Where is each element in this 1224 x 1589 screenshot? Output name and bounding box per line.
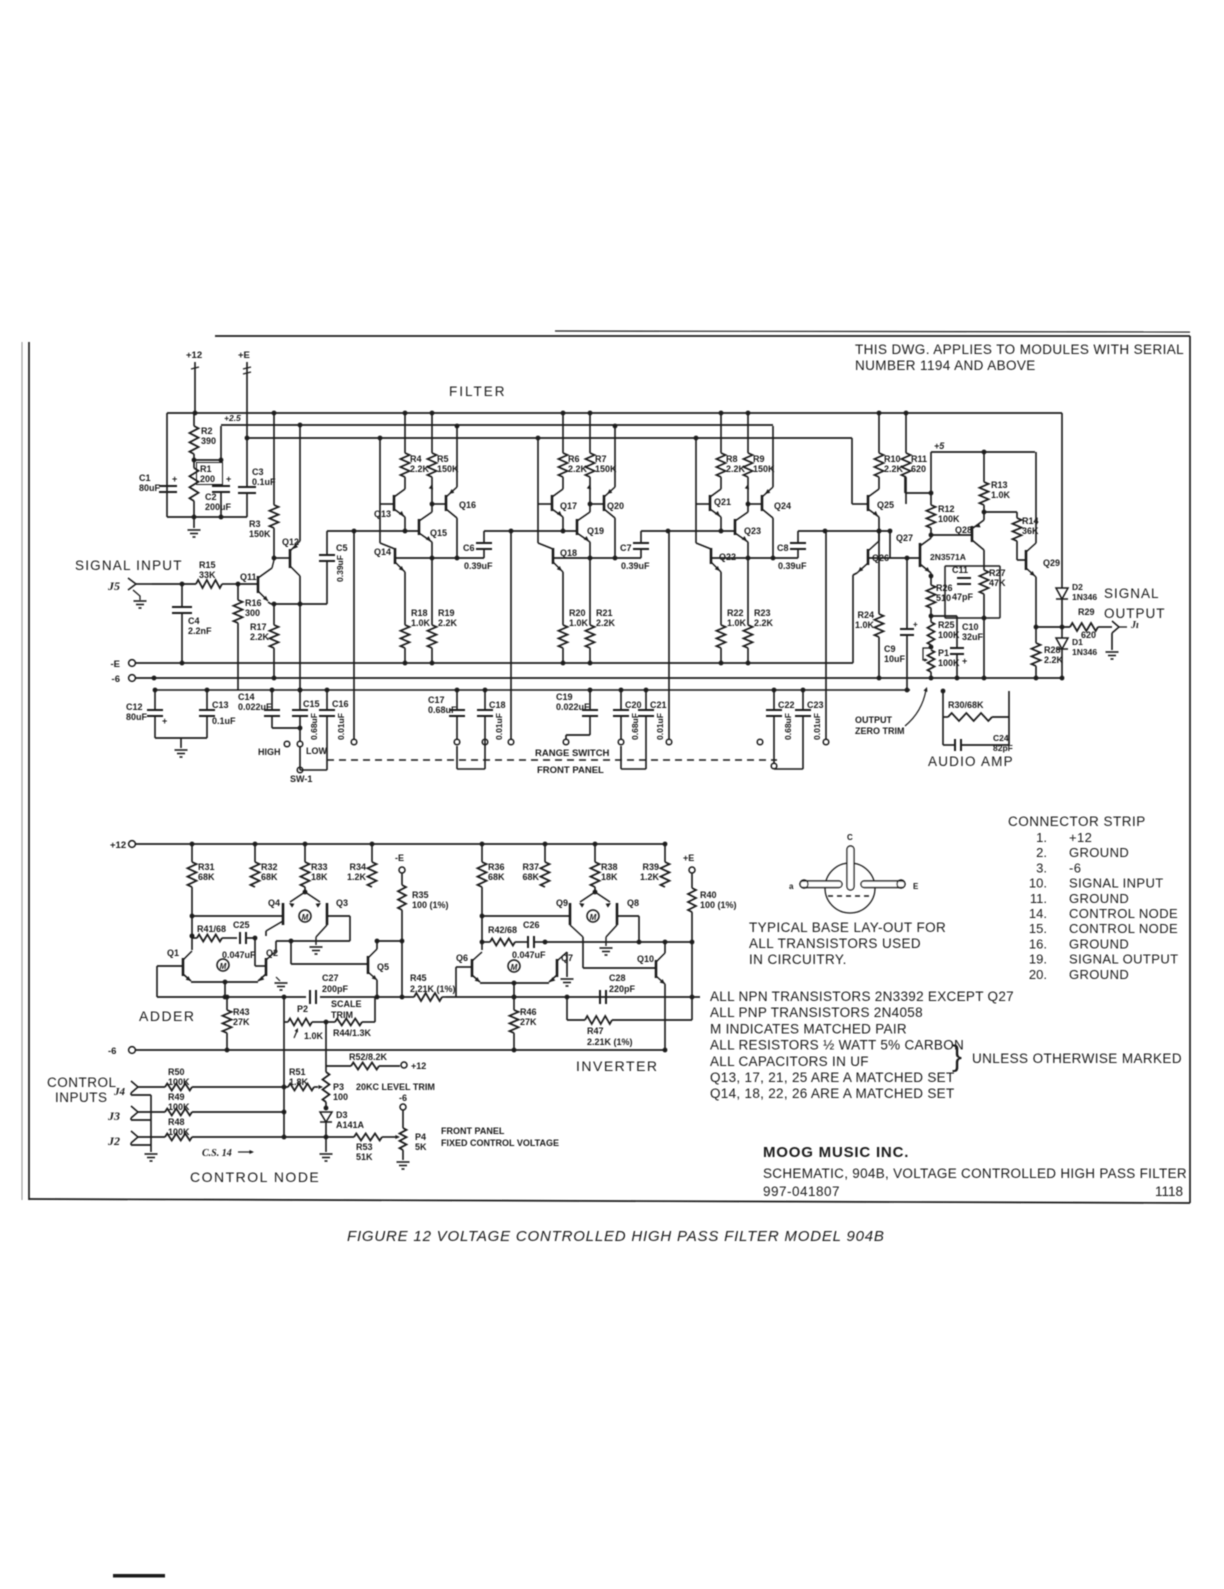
svg-text:-E: -E bbox=[111, 659, 121, 670]
capacitor C27 bbox=[309, 990, 311, 1004]
wire Q14 base row / emitter row y558 bbox=[395, 557, 484, 559]
svg-text:Q10: Q10 bbox=[637, 954, 654, 964]
svg-text:Q22: Q22 bbox=[719, 552, 736, 562]
svg-text:R39: R39 bbox=[642, 862, 659, 872]
svg-text:Q14: Q14 bbox=[374, 547, 391, 557]
resistor R34 bbox=[370, 842, 375, 847]
svg-text:68K: 68K bbox=[522, 872, 539, 882]
svg-text:C27: C27 bbox=[322, 973, 339, 983]
svg-text:R3: R3 bbox=[249, 519, 261, 529]
resistor R14 bbox=[982, 510, 987, 515]
capacitor C13 bbox=[205, 688, 210, 693]
svg-text:M INDICATES MATCHED PAIR: M INDICATES MATCHED PAIR bbox=[710, 1021, 907, 1036]
svg-text:ALL CAPACITORS IN UF: ALL CAPACITORS IN UF bbox=[710, 1054, 869, 1069]
svg-text:C12: C12 bbox=[126, 702, 143, 712]
wire Q22 base row / emitter row y558 bbox=[711, 557, 798, 559]
svg-text:ADDER: ADDER bbox=[139, 1008, 196, 1024]
svg-text:R41/68: R41/68 bbox=[197, 924, 226, 934]
svg-text:R49: R49 bbox=[168, 1092, 185, 1102]
svg-text:R34: R34 bbox=[349, 862, 366, 872]
matched pair circle Q6 Q7 bbox=[508, 960, 520, 972]
svg-text:SIGNAL: SIGNAL bbox=[1104, 586, 1160, 601]
svg-text:C4: C4 bbox=[188, 616, 200, 626]
svg-text:R7: R7 bbox=[595, 454, 607, 464]
wire bus +E (bus 3) bbox=[247, 437, 852, 439]
svg-text:2.2K: 2.2K bbox=[884, 464, 904, 474]
wire bus -6 bbox=[129, 675, 136, 682]
wire adder output row y997 bbox=[157, 996, 306, 998]
svg-text:CONNECTOR STRIP: CONNECTOR STRIP bbox=[1008, 814, 1146, 829]
capacitor C26 bbox=[527, 936, 529, 948]
svg-text:R20: R20 bbox=[569, 608, 586, 618]
resistor R33 bbox=[303, 842, 308, 847]
svg-text:Q5: Q5 bbox=[377, 962, 389, 972]
svg-text:CONTROL NODE: CONTROL NODE bbox=[1069, 921, 1178, 936]
resistor R25 bbox=[928, 622, 935, 645]
svg-text:2.: 2. bbox=[1036, 845, 1047, 860]
svg-text:15.: 15. bbox=[1029, 921, 1047, 936]
wire Q18 base row / emitter row y558 bbox=[553, 557, 641, 559]
svg-text:1.: 1. bbox=[1036, 830, 1047, 845]
svg-text:0.68uF: 0.68uF bbox=[309, 713, 319, 740]
svg-text:2.2nF: 2.2nF bbox=[188, 626, 212, 636]
svg-text:LOW: LOW bbox=[306, 746, 327, 756]
svg-text:-6: -6 bbox=[112, 674, 120, 685]
svg-text:Q20: Q20 bbox=[607, 501, 624, 511]
resistor R5 bbox=[430, 411, 435, 416]
svg-text:1N346: 1N346 bbox=[1072, 647, 1097, 657]
svg-text:47pF: 47pF bbox=[952, 592, 974, 602]
svg-text:+: + bbox=[172, 474, 177, 484]
svg-text:GROUND: GROUND bbox=[1069, 891, 1129, 906]
resistor R1 bbox=[190, 468, 199, 501]
svg-text:0.047uF: 0.047uF bbox=[512, 950, 546, 960]
svg-text:68K: 68K bbox=[488, 872, 505, 882]
svg-text:OUTPUT: OUTPUT bbox=[855, 715, 893, 725]
wire Q12 collector to bus2 bbox=[299, 425, 301, 541]
svg-text:C28: C28 bbox=[609, 973, 626, 983]
resistor R12 bbox=[927, 505, 936, 528]
svg-text:R5: R5 bbox=[437, 454, 449, 464]
svg-text:Q17: Q17 bbox=[560, 501, 577, 511]
svg-text:J4: J4 bbox=[113, 1086, 126, 1098]
wire Q9 base row bbox=[482, 915, 570, 917]
svg-text:100 (1%): 100 (1%) bbox=[412, 900, 449, 910]
capacitor C3 bbox=[238, 486, 256, 488]
svg-text:200pF: 200pF bbox=[322, 984, 349, 994]
svg-text:+2.5: +2.5 bbox=[224, 413, 241, 423]
svg-text:100K: 100K bbox=[168, 1127, 190, 1137]
svg-text:Q13: Q13 bbox=[374, 509, 391, 519]
resistor R8 bbox=[719, 411, 724, 416]
svg-text:C13: C13 bbox=[212, 700, 229, 710]
svg-text:Q4: Q4 bbox=[268, 898, 280, 908]
resistor R17 bbox=[273, 604, 275, 625]
svg-text:80uF: 80uF bbox=[139, 483, 161, 493]
svg-text:R6: R6 bbox=[568, 454, 580, 464]
svg-text:SW-1: SW-1 bbox=[290, 774, 312, 784]
resistor R16 bbox=[237, 584, 239, 600]
wire range-switch drop column 3 bbox=[668, 531, 670, 739]
diode D2 bbox=[1056, 588, 1068, 599]
wire R2-C2 link bbox=[194, 459, 221, 461]
resistor R53 bbox=[354, 1134, 382, 1141]
ground Q2 bbox=[276, 977, 280, 981]
svg-text:HIGH: HIGH bbox=[258, 747, 281, 757]
svg-text:}: } bbox=[952, 1040, 962, 1073]
svg-text:THIS DWG. APPLIES TO MODULES W: THIS DWG. APPLIES TO MODULES WITH SERIAL bbox=[855, 342, 1184, 357]
wire Q12 emitter down bbox=[299, 576, 301, 604]
svg-text:Q23: Q23 bbox=[744, 526, 761, 536]
potentiometer P1 bbox=[928, 650, 935, 672]
switch SW-1 high/low contacts bbox=[284, 741, 290, 747]
capacitor C12 bbox=[153, 688, 158, 693]
svg-text:R36: R36 bbox=[488, 862, 505, 872]
wire Q6 Q7 emitter row bbox=[480, 982, 549, 984]
svg-text:R27: R27 bbox=[989, 568, 1006, 578]
potentiometer P3 bbox=[325, 1066, 327, 1072]
svg-text:-6: -6 bbox=[399, 1093, 407, 1103]
svg-text:+12: +12 bbox=[411, 1061, 426, 1071]
svg-text:68K: 68K bbox=[261, 872, 278, 882]
svg-text:0.39uF: 0.39uF bbox=[335, 555, 345, 582]
svg-text:R38: R38 bbox=[601, 862, 618, 872]
ground P4 bbox=[397, 1161, 410, 1163]
capacitor C20 bbox=[619, 688, 624, 693]
resistor R47 bbox=[565, 995, 570, 1000]
svg-text:27K: 27K bbox=[520, 1017, 537, 1027]
resistor R24 bbox=[878, 531, 880, 614]
svg-text:Q18: Q18 bbox=[560, 548, 577, 558]
wire P2 column down bbox=[283, 1022, 285, 1087]
svg-text:M: M bbox=[220, 962, 227, 971]
svg-text:0.1uF: 0.1uF bbox=[212, 716, 236, 726]
svg-text:82pF: 82pF bbox=[993, 743, 1013, 753]
svg-text:C7: C7 bbox=[620, 543, 632, 553]
resistor R9 bbox=[746, 411, 751, 416]
wire Q8 base loop bbox=[617, 915, 639, 917]
svg-text:Q15: Q15 bbox=[430, 528, 447, 538]
wire range-switch drop column 1 bbox=[353, 531, 355, 739]
capacitor C24 bbox=[943, 744, 955, 746]
svg-text:P4: P4 bbox=[415, 1132, 426, 1142]
svg-text:1118: 1118 bbox=[1155, 1184, 1183, 1199]
svg-text:P2: P2 bbox=[297, 1004, 308, 1014]
svg-text:C26: C26 bbox=[523, 920, 540, 930]
svg-text:C11: C11 bbox=[952, 565, 968, 575]
svg-text:20KC LEVEL TRIM: 20KC LEVEL TRIM bbox=[356, 1082, 435, 1092]
capacitor C21 bbox=[644, 688, 649, 693]
svg-text:R24: R24 bbox=[857, 610, 874, 620]
svg-text:150K: 150K bbox=[437, 464, 459, 474]
svg-text:R22: R22 bbox=[727, 608, 744, 618]
wire R31 column bbox=[191, 887, 193, 950]
svg-text:R1: R1 bbox=[200, 464, 212, 474]
svg-text:68K: 68K bbox=[198, 872, 215, 882]
svg-text:C21: C21 bbox=[650, 700, 667, 710]
svg-text:2.2K: 2.2K bbox=[438, 618, 458, 628]
svg-text:R23: R23 bbox=[754, 608, 771, 618]
resistor R7 bbox=[588, 411, 593, 416]
svg-text:TRIM: TRIM bbox=[331, 1010, 353, 1020]
svg-text:2.2K: 2.2K bbox=[568, 464, 588, 474]
svg-text:+: + bbox=[226, 474, 231, 484]
svg-text:R46: R46 bbox=[520, 1007, 537, 1017]
resistor R4 bbox=[403, 411, 408, 416]
svg-text:+: + bbox=[962, 656, 967, 666]
ground left supply bbox=[193, 517, 195, 528]
capacitor C25 bbox=[239, 932, 241, 944]
svg-text:ALL NPN TRANSISTORS 2N3392 EXC: ALL NPN TRANSISTORS 2N3392 EXCEPT Q27 bbox=[710, 989, 1014, 1004]
svg-text:R33: R33 bbox=[311, 862, 328, 872]
svg-text:510: 510 bbox=[936, 593, 951, 603]
svg-text:1N346: 1N346 bbox=[1072, 592, 1097, 602]
wire Q27 base row bbox=[889, 531, 891, 558]
svg-text:R37: R37 bbox=[522, 862, 539, 872]
resistor R19 bbox=[431, 558, 433, 625]
wire bus -E bbox=[129, 660, 136, 667]
resistor R39 bbox=[663, 842, 668, 847]
svg-text:Q24: Q24 bbox=[774, 501, 791, 511]
svg-text:2.2K: 2.2K bbox=[1044, 655, 1064, 665]
svg-text:C20: C20 bbox=[625, 700, 642, 710]
capacitor C23 bbox=[801, 688, 806, 693]
svg-text:R18: R18 bbox=[411, 608, 428, 618]
svg-text:R47: R47 bbox=[587, 1026, 604, 1036]
svg-text:3.: 3. bbox=[1036, 860, 1047, 875]
svg-text:SIGNAL INPUT: SIGNAL INPUT bbox=[75, 558, 183, 573]
svg-text:0.01uF: 0.01uF bbox=[812, 713, 822, 740]
capacitor C22 bbox=[772, 688, 777, 693]
svg-text:SCHEMATIC, 904B, VOLTAGE CONTR: SCHEMATIC, 904B, VOLTAGE CONTROLLED HIGH… bbox=[763, 1166, 1187, 1181]
svg-text:a: a bbox=[789, 882, 794, 891]
ground output jack bbox=[1111, 633, 1113, 650]
wire bus +12 lower bbox=[129, 841, 136, 848]
svg-text:P3: P3 bbox=[333, 1082, 344, 1092]
wire bus -6 lower bbox=[129, 1047, 136, 1054]
svg-text:100 (1%): 100 (1%) bbox=[700, 900, 737, 910]
svg-text:1.0K: 1.0K bbox=[304, 1031, 324, 1041]
svg-text:C: C bbox=[847, 833, 853, 842]
svg-text:SIGNAL INPUT: SIGNAL INPUT bbox=[1069, 876, 1164, 891]
resistor R27 bbox=[980, 570, 989, 594]
svg-text:C10: C10 bbox=[962, 622, 979, 632]
svg-text:ALL RESISTORS ½ WATT 5% CARBON: ALL RESISTORS ½ WATT 5% CARBON bbox=[710, 1038, 964, 1053]
wire range-switch drop column 2 bbox=[510, 531, 512, 739]
svg-text:C19: C19 bbox=[556, 692, 573, 702]
capacitor C7 bbox=[640, 531, 642, 543]
svg-text:FIXED CONTROL VOLTAGE: FIXED CONTROL VOLTAGE bbox=[441, 1138, 559, 1148]
wire bus +12 (top bus 1) bbox=[167, 412, 1062, 414]
svg-text:997-041807: 997-041807 bbox=[763, 1184, 840, 1199]
svg-text:Q21: Q21 bbox=[714, 497, 731, 507]
svg-text:P1: P1 bbox=[938, 648, 949, 658]
resistor R46 bbox=[512, 995, 517, 1000]
svg-text:C6: C6 bbox=[463, 543, 475, 553]
svg-text:FILTER: FILTER bbox=[449, 384, 507, 399]
resistor R28 bbox=[1035, 627, 1037, 643]
wire stage base row y531 k2 bbox=[641, 530, 735, 532]
svg-text:2.2K: 2.2K bbox=[754, 618, 774, 628]
svg-text:SIGNAL OUTPUT: SIGNAL OUTPUT bbox=[1069, 952, 1178, 967]
resistor R10 bbox=[877, 411, 882, 416]
wire Q9 emitter to Q10 bbox=[570, 925, 583, 937]
svg-text:Q27: Q27 bbox=[896, 533, 913, 543]
box C11 R27 bbox=[945, 565, 1000, 567]
wire stage base row y531 k0 bbox=[327, 530, 419, 532]
wire P3 column up bbox=[325, 1022, 327, 1066]
svg-text:20.: 20. bbox=[1029, 967, 1047, 982]
svg-text:0.047uF: 0.047uF bbox=[222, 950, 256, 960]
wire C25 to Q2 base bbox=[254, 938, 256, 966]
node +5 bbox=[930, 452, 932, 493]
svg-text:R25: R25 bbox=[938, 620, 955, 630]
matched pair circle Q1 Q2 bbox=[217, 959, 229, 971]
svg-text:2.2K: 2.2K bbox=[596, 618, 616, 628]
svg-text:0.1uF: 0.1uF bbox=[252, 477, 276, 487]
capacitor C16 bbox=[325, 688, 330, 693]
svg-text:Q28: Q28 bbox=[955, 525, 972, 535]
svg-text:-6: -6 bbox=[1069, 860, 1081, 875]
svg-text:1.2K: 1.2K bbox=[640, 872, 660, 882]
svg-text:R19: R19 bbox=[438, 608, 455, 618]
resistor R50 bbox=[165, 1084, 192, 1091]
svg-text:Q1: Q1 bbox=[167, 948, 179, 958]
svg-text:R31: R31 bbox=[198, 862, 215, 872]
resistor R3 bbox=[273, 413, 275, 445]
svg-text:FRONT PANEL: FRONT PANEL bbox=[537, 765, 604, 776]
ground Q8 Q9 bbox=[606, 925, 617, 937]
capacitor C15 bbox=[298, 688, 303, 693]
svg-text:R40: R40 bbox=[700, 890, 717, 900]
svg-text:200uF: 200uF bbox=[205, 502, 232, 512]
wire Q3 loop to row941 bbox=[327, 915, 350, 917]
svg-text:M: M bbox=[511, 963, 518, 972]
svg-text:19.: 19. bbox=[1029, 952, 1047, 967]
wire R11 to +5 node bbox=[904, 477, 906, 493]
ground Q3 Q4 bbox=[316, 925, 327, 937]
resistor R23 bbox=[747, 558, 749, 625]
svg-text:220pF: 220pF bbox=[609, 984, 636, 994]
wire Q11 emitter row bbox=[268, 602, 271, 604]
svg-text:SCALE: SCALE bbox=[331, 999, 362, 1009]
svg-text:C16: C16 bbox=[332, 699, 349, 709]
svg-text:R21: R21 bbox=[596, 608, 613, 618]
svg-text:1.0K: 1.0K bbox=[727, 618, 747, 628]
resistor R13 bbox=[983, 452, 985, 482]
capacitor C2 bbox=[212, 485, 230, 487]
svg-text:J5: J5 bbox=[107, 579, 120, 593]
svg-text:100: 100 bbox=[333, 1092, 348, 1102]
capacitor C19 bbox=[588, 688, 593, 693]
diode D3 bbox=[324, 1106, 329, 1111]
resistor R29 bbox=[1036, 626, 1070, 628]
svg-text:47K: 47K bbox=[989, 578, 1006, 588]
svg-text:5K: 5K bbox=[415, 1142, 427, 1152]
resistor R6 bbox=[561, 411, 566, 416]
svg-text:TYPICAL BASE LAY-OUT FOR: TYPICAL BASE LAY-OUT FOR bbox=[749, 920, 946, 935]
svg-text:18K: 18K bbox=[311, 872, 328, 882]
ground D3 bbox=[320, 1153, 333, 1155]
svg-text:J2: J2 bbox=[107, 1134, 120, 1148]
svg-text:1.0K: 1.0K bbox=[569, 618, 589, 628]
svg-text:+12: +12 bbox=[186, 350, 202, 361]
svg-text:FRONT PANEL: FRONT PANEL bbox=[441, 1126, 505, 1136]
svg-text:R30/68K: R30/68K bbox=[948, 700, 984, 710]
svg-text:Q29: Q29 bbox=[1043, 558, 1060, 568]
svg-text:R52/8.2K: R52/8.2K bbox=[349, 1052, 388, 1062]
wire +5 rail bbox=[931, 451, 1035, 453]
resistor R31 bbox=[190, 842, 195, 847]
svg-text:33K: 33K bbox=[199, 570, 216, 580]
svg-text:A141A: A141A bbox=[336, 1120, 365, 1130]
capacitor C8 bbox=[797, 531, 799, 543]
svg-text:1.2K: 1.2K bbox=[347, 872, 367, 882]
svg-text:C8: C8 bbox=[777, 543, 789, 553]
wire bus +2.5 (bus 2) bbox=[221, 424, 773, 426]
svg-text:R35: R35 bbox=[412, 890, 429, 900]
svg-text:C23: C23 bbox=[807, 700, 824, 710]
svg-text:R16: R16 bbox=[245, 598, 262, 608]
svg-text:Q6: Q6 bbox=[456, 953, 468, 963]
resistor R40 bbox=[691, 873, 693, 888]
svg-text:620: 620 bbox=[1081, 630, 1096, 640]
svg-text:AUDIO AMP: AUDIO AMP bbox=[928, 754, 1014, 769]
svg-text:+12: +12 bbox=[1069, 830, 1092, 845]
svg-text:150K: 150K bbox=[595, 464, 617, 474]
svg-text:C9: C9 bbox=[884, 644, 896, 654]
svg-text:R10: R10 bbox=[884, 454, 901, 464]
wire capacitor rail bbox=[154, 689, 910, 691]
svg-text:2.2K: 2.2K bbox=[726, 464, 746, 474]
svg-text:620: 620 bbox=[911, 464, 926, 474]
svg-text:R48: R48 bbox=[168, 1117, 185, 1127]
ground C12 C13 bbox=[175, 749, 188, 751]
svg-text:R11: R11 bbox=[911, 454, 927, 464]
svg-text:R43: R43 bbox=[233, 1007, 250, 1017]
resistor R36 bbox=[480, 842, 485, 847]
capacitor C28 bbox=[599, 990, 601, 1004]
matched pair Q3 Q4 bbox=[304, 887, 306, 892]
node +E inverter bbox=[689, 867, 695, 873]
svg-text:10.: 10. bbox=[1029, 876, 1047, 891]
svg-text:390: 390 bbox=[201, 436, 216, 446]
svg-text:1.8K: 1.8K bbox=[289, 1077, 309, 1087]
svg-text:INVERTER: INVERTER bbox=[576, 1058, 659, 1074]
svg-text:51K: 51K bbox=[356, 1152, 373, 1162]
svg-text:M: M bbox=[302, 913, 309, 922]
svg-text:100K: 100K bbox=[938, 514, 960, 524]
svg-text:+: + bbox=[913, 620, 918, 629]
svg-text:+E: +E bbox=[683, 853, 694, 863]
capacitor C5 bbox=[326, 531, 328, 555]
svg-text:E: E bbox=[913, 882, 919, 891]
svg-text:1.0K: 1.0K bbox=[411, 618, 431, 628]
svg-text:ALL PNP TRANSISTORS 2N4058: ALL PNP TRANSISTORS 2N4058 bbox=[710, 1005, 923, 1020]
matched pair Q8 Q9 bbox=[594, 887, 596, 892]
wire input node bbox=[236, 582, 241, 587]
svg-text:0.01uF: 0.01uF bbox=[336, 713, 346, 740]
svg-text:R15: R15 bbox=[199, 560, 216, 570]
ground J5 bbox=[134, 600, 147, 602]
svg-text:UNLESS OTHERWISE MARKED: UNLESS OTHERWISE MARKED bbox=[972, 1051, 1182, 1066]
resistor R21 bbox=[589, 558, 591, 625]
svg-text:R2: R2 bbox=[201, 426, 213, 436]
svg-text:Q19: Q19 bbox=[587, 526, 604, 536]
svg-text:80uF: 80uF bbox=[126, 712, 148, 722]
resistor R51 bbox=[288, 1084, 314, 1091]
svg-text:C18: C18 bbox=[489, 700, 506, 710]
